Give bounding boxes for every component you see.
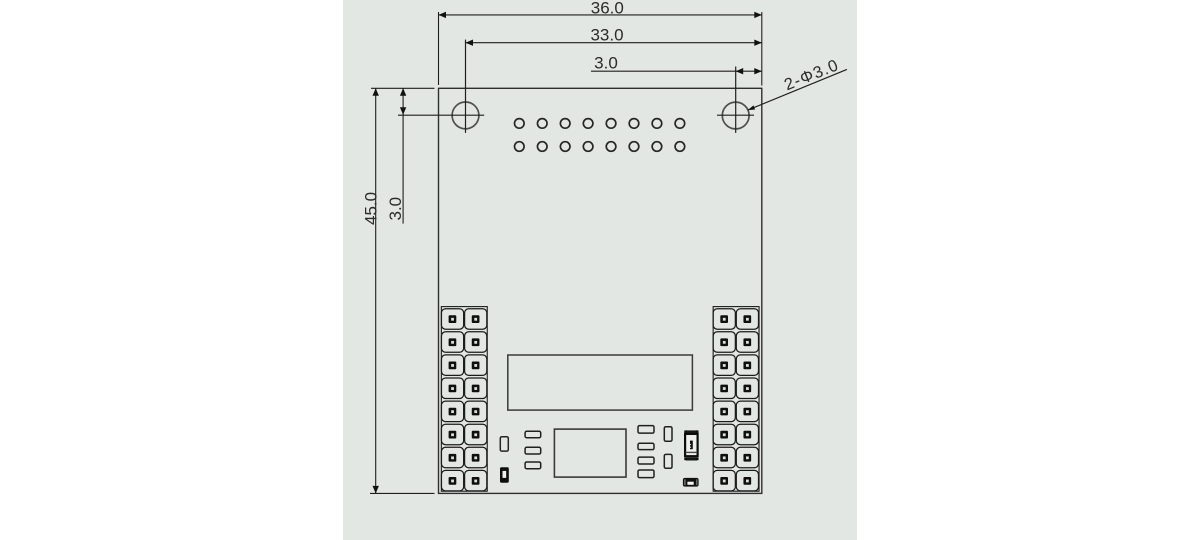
switch SW1 [684,430,698,460]
svg-text:3.0: 3.0 [386,197,405,221]
LCD display outline U1 [508,355,693,410]
dimension 3.0 top [591,53,762,74]
leader 2-PHI3.0 [748,56,847,110]
header J1 (left) [441,307,487,492]
mounting hole H1 (left) [398,40,484,133]
pin hole row 2 [515,142,685,152]
extension line board right [761,12,763,86]
board outline [439,88,762,493]
module outline U2 [554,429,626,477]
extension line board bottom-left [370,492,435,494]
resistor R4 [638,426,654,434]
dimension 45.0 [361,88,380,493]
extension line board top-left [371,87,435,89]
dimension 33.0 [466,25,762,46]
LED D2 [683,478,699,487]
resistor R7 [638,470,654,478]
svg-text:45.0: 45.0 [361,192,380,225]
pin hole row 1 [515,119,685,129]
diode D1 [500,467,509,483]
resistor R3 [525,462,541,469]
background panel [343,0,857,540]
resistor R6 [638,457,654,464]
resistor R1 [525,431,541,437]
capacitor C3 [664,454,672,468]
capacitor C2 [664,427,672,442]
svg-text:36.0: 36.0 [591,0,624,17]
dimension 36.0 [439,0,762,18]
extension line board left [438,12,440,85]
capacitor C1 [500,437,508,451]
header J2 (right) [713,307,759,492]
mounting hole H2 (right) [717,67,754,133]
dimension 3.0 left [386,88,406,223]
svg-text:3.0: 3.0 [594,53,618,72]
svg-text:33.0: 33.0 [590,25,623,44]
resistor R5 [638,443,654,449]
resistor R2 [525,447,541,454]
